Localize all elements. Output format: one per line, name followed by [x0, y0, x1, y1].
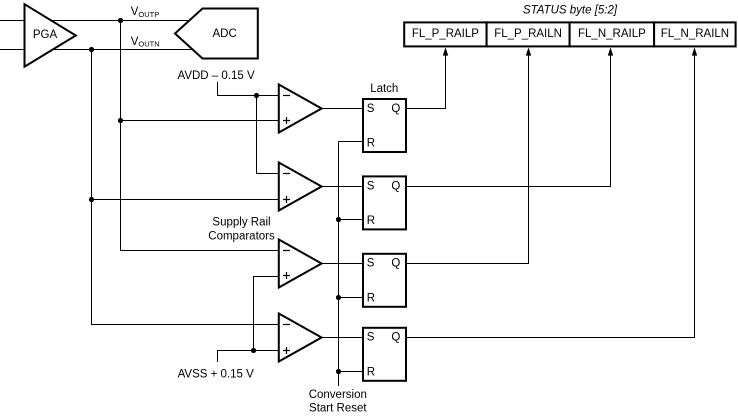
arrowhead into FL_N_RAILN: [692, 47, 697, 55]
arrowhead into FL_P_RAILN: [526, 47, 531, 55]
svg-text:AVDD – 0.15 V: AVDD – 0.15 V: [178, 70, 255, 82]
svg-text:Q: Q: [391, 332, 400, 344]
svg-text:R: R: [367, 138, 375, 150]
wire latch 2 Q to FL_N_RAILP: [406, 54, 611, 187]
svg-text:Latch: Latch: [370, 83, 398, 95]
status register box FL_P_RAILN: [487, 22, 570, 46]
wire AVDD branch to comparator 2 minus: [257, 96, 281, 174]
svg-text:PGA: PGA: [33, 29, 58, 41]
svg-text:Comparators: Comparators: [208, 231, 275, 243]
wire VOUTN vertical to comparator 4 minus: [92, 50, 281, 325]
PGA amplifier: [25, 4, 76, 66]
wire latch 4 Q to FL_N_RAILN: [406, 54, 695, 338]
status register box FL_N_RAILP: [570, 22, 655, 46]
wire VOUTP vertical to comparator 3 minus: [121, 21, 281, 251]
svg-text:Q: Q: [391, 258, 400, 270]
wire reset to latch 2 R: [339, 219, 364, 221]
svg-text:Start Reset: Start Reset: [309, 403, 367, 415]
svg-text:S: S: [367, 258, 375, 270]
junction AVDD branch: [254, 93, 259, 98]
wire comparator 4 output to latch 4 S: [322, 337, 363, 339]
wire latch 1 Q to FL_P_RAILP: [406, 54, 446, 109]
wire AVSS branch to comparator 3 plus: [254, 277, 281, 351]
wire VOUTN bus: [0, 49, 202, 51]
svg-text:FL_N_RAILP: FL_N_RAILP: [578, 28, 646, 40]
junction reset to latch 3 R: [336, 295, 341, 300]
svg-text:S: S: [367, 332, 375, 344]
wire conversion start reset vertical: [338, 142, 340, 387]
svg-text:Q: Q: [391, 180, 400, 192]
svg-text:R: R: [367, 366, 375, 378]
status register box FL_N_RAILN: [654, 22, 736, 46]
latch 3: [363, 254, 406, 307]
junction VOUTN node: [89, 47, 94, 52]
svg-text:FL_P_RAILN: FL_P_RAILN: [494, 28, 562, 40]
wire VOUTP branch to comparator 1 plus: [121, 120, 281, 122]
svg-text:STATUS byte [5:2]: STATUS byte [5:2]: [523, 4, 618, 16]
svg-text:Q: Q: [391, 103, 400, 115]
svg-text:Supply Rail: Supply Rail: [212, 217, 270, 229]
svg-text:AVSS + 0.15 V: AVSS + 0.15 V: [178, 368, 255, 380]
svg-text:VOUTN: VOUTN: [131, 36, 160, 49]
wire reset to latch 3 R: [339, 297, 364, 299]
junction reset to latch 4 R: [336, 369, 341, 374]
junction reset to latch 2 R: [336, 217, 341, 222]
svg-text:FL_N_RAILN: FL_N_RAILN: [661, 28, 729, 40]
svg-text:VOUTP: VOUTP: [131, 6, 160, 19]
comparator U4: [279, 314, 322, 362]
svg-text:FL_P_RAILP: FL_P_RAILP: [412, 28, 479, 40]
arrowhead into FL_P_RAILP: [443, 47, 448, 55]
svg-text:R: R: [367, 215, 375, 227]
junction VOUTN to comparator 2 plus: [89, 197, 94, 202]
wire VOUTN branch to comparator 2 plus: [92, 199, 281, 201]
latch 1: [363, 99, 406, 152]
wire AVDD-0.15V feed to comparator 1 minus: [218, 82, 281, 96]
comparator U2: [279, 163, 322, 211]
svg-text:ADC: ADC: [213, 28, 237, 40]
svg-text:S: S: [367, 103, 375, 115]
comparator U3: [279, 240, 322, 288]
junction AVSS branch: [251, 348, 256, 353]
svg-text:R: R: [367, 292, 375, 304]
wire comparator 3 output to latch 3 S: [322, 263, 363, 265]
junction VOUTP to comparator 1 plus: [118, 118, 123, 123]
svg-text:S: S: [367, 180, 375, 192]
wire reset to latch 1 R: [339, 141, 364, 143]
status register box FL_P_RAILP: [404, 22, 486, 46]
comparator U1: [279, 85, 322, 133]
latch 2: [363, 176, 406, 229]
junction VOUTP node: [118, 18, 123, 23]
label Conversion Start Reset: [309, 389, 368, 415]
ADC block: [175, 9, 258, 59]
wire comparator 2 output to latch 2 S: [322, 186, 363, 188]
wire reset to latch 4 R: [339, 371, 364, 373]
latch 4: [363, 328, 406, 381]
wire AVSS+0.15V feed to comparator 4 plus: [218, 351, 281, 363]
wire latch 3 Q to FL_P_RAILN: [406, 54, 529, 264]
svg-text:Conversion: Conversion: [309, 389, 367, 401]
wire VOUTP bus: [0, 20, 202, 22]
wire comparator 1 output to latch 1 S: [322, 108, 363, 110]
label Supply Rail Comparators: [208, 217, 275, 243]
arrowhead into FL_N_RAILP: [608, 47, 613, 55]
